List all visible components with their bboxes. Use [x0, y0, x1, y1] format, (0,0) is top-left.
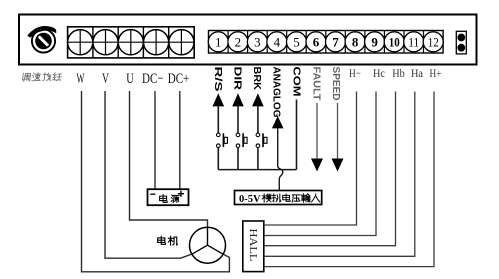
- pushbutton switch S3 (BRK): [256, 133, 267, 147]
- svg-text:12: 12: [428, 34, 439, 49]
- wire DIR to bus: [237, 148, 239, 170]
- terminal 4 circle: [267, 32, 287, 52]
- wire V to motor: [105, 91, 192, 258]
- pushbutton switch S1 (R/S): [217, 133, 228, 147]
- svg-text:DC+: DC+: [168, 71, 190, 87]
- label SPEED (rotated): [330, 67, 341, 101]
- svg-text:W: W: [77, 71, 85, 87]
- wire Ha to hall: [264, 92, 415, 257]
- wire H+ to hall: [264, 92, 434, 267]
- terminal 8 circle: [345, 32, 365, 52]
- label Hb: [392, 66, 405, 80]
- svg-text:10: 10: [389, 34, 400, 49]
- label 调速旋钮 (speed knob): [22, 73, 62, 81]
- wire DC- to power: [154, 91, 156, 189]
- screw terminal U: [118, 30, 143, 55]
- svg-text:COM: COM: [291, 67, 302, 97]
- motor M circle: [190, 227, 226, 263]
- label H+: [430, 66, 442, 80]
- label W: [77, 71, 85, 87]
- label Hc: [373, 66, 385, 80]
- label 电源: [160, 195, 180, 203]
- analog voltage input box 0-5V: [235, 191, 322, 206]
- wire R/S to bus: [217, 148, 219, 170]
- svg-text:V: V: [102, 71, 109, 87]
- label DC-: [142, 71, 164, 87]
- terminal 3 circle: [247, 32, 267, 52]
- wire U to motor: [130, 91, 208, 227]
- wire BRK to bus: [257, 148, 259, 170]
- indicator LED connector: [456, 31, 466, 54]
- svg-text:HALL: HALL: [247, 229, 258, 262]
- terminal 7 circle: [326, 32, 346, 52]
- terminal 5 circle: [287, 32, 307, 52]
- screw terminal DC-: [144, 30, 169, 55]
- wire Hc to hall: [264, 92, 376, 236]
- controller main box: [19, 15, 477, 65]
- screw terminal W: [68, 30, 93, 55]
- terminal 6 circle: [306, 32, 326, 52]
- svg-text:1: 1: [215, 34, 222, 49]
- wire ANAGLOG with hop over bus: [278, 128, 283, 191]
- svg-text:11: 11: [408, 34, 419, 49]
- svg-text:8: 8: [352, 34, 359, 49]
- wire DIR stem: [237, 106, 239, 133]
- terminal 9 circle: [365, 32, 385, 52]
- svg-text:9: 9: [371, 34, 378, 49]
- svg-text:H−: H−: [349, 66, 361, 80]
- label ANAGLOG (rotated): [271, 67, 282, 118]
- arrow up DIR: [232, 93, 244, 106]
- arrow up ANAGLOG: [272, 116, 284, 128]
- wire W to motor: [82, 91, 230, 272]
- svg-text:SPEED: SPEED: [330, 67, 341, 101]
- wire COM: [296, 100, 298, 170]
- potentiometer speed knob: [27, 26, 56, 53]
- svg-text:DIR: DIR: [232, 67, 243, 92]
- svg-text:Hc: Hc: [373, 66, 385, 80]
- pushbutton switch S2 (DIR): [236, 133, 247, 147]
- svg-text:H+: H+: [430, 66, 442, 80]
- label H-: [349, 66, 361, 80]
- label 模拟电压输入: [262, 194, 320, 202]
- arrow up R/S: [213, 93, 225, 106]
- wire R/S stem: [217, 106, 219, 133]
- wire DC+ to power: [179, 91, 181, 189]
- svg-text:Ha: Ha: [411, 66, 424, 80]
- power supply box 电源: [148, 189, 189, 205]
- terminal 11 circle: [404, 32, 424, 52]
- HALL sensor box: [243, 221, 264, 272]
- arrow down FAULT: [311, 159, 323, 172]
- arrow down SPEED: [332, 159, 344, 172]
- svg-text:5: 5: [293, 34, 300, 49]
- terminal 12 circle: [423, 32, 443, 52]
- svg-text:U: U: [126, 71, 134, 87]
- svg-text:Hb: Hb: [392, 66, 405, 80]
- label Ha: [411, 66, 424, 80]
- svg-text:BRK: BRK: [251, 67, 262, 91]
- screw terminal DC+: [169, 30, 194, 55]
- wire FAULT: [316, 103, 318, 159]
- common bus wire: [218, 169, 296, 171]
- label DIR (rotated): [232, 67, 243, 92]
- screw terminal V: [93, 30, 118, 55]
- wire Hb to hall: [264, 92, 396, 246]
- label 电机: [158, 236, 178, 245]
- svg-text:FAULT: FAULT: [311, 67, 322, 101]
- label DC+: [168, 71, 190, 87]
- svg-text:DC−: DC−: [142, 71, 164, 87]
- label COM (rotated): [291, 67, 302, 97]
- signal terminal strip 1-12: [209, 31, 444, 54]
- svg-text:3: 3: [254, 34, 261, 49]
- svg-text:6: 6: [313, 34, 320, 49]
- terminal 10 circle: [384, 32, 404, 52]
- wire SPEED: [337, 103, 339, 159]
- label BRK (rotated): [251, 67, 262, 91]
- wire BRK stem: [257, 106, 259, 133]
- arrow up BRK: [252, 93, 264, 106]
- terminal 1 circle: [208, 32, 228, 52]
- label V: [102, 71, 109, 87]
- wire H- to hall: [264, 92, 357, 226]
- big terminal block outline: [68, 27, 195, 58]
- svg-text:ANAGLOG: ANAGLOG: [271, 67, 282, 118]
- terminal 2 circle: [228, 32, 248, 52]
- svg-text:4: 4: [274, 34, 281, 49]
- svg-text:R/S: R/S: [212, 67, 223, 92]
- label U: [126, 71, 134, 87]
- svg-text:7: 7: [332, 34, 339, 49]
- label R/S (rotated): [212, 67, 223, 92]
- label FAULT (rotated): [311, 67, 322, 101]
- svg-text:2: 2: [235, 34, 242, 49]
- svg-text:0-5V: 0-5V: [239, 194, 261, 205]
